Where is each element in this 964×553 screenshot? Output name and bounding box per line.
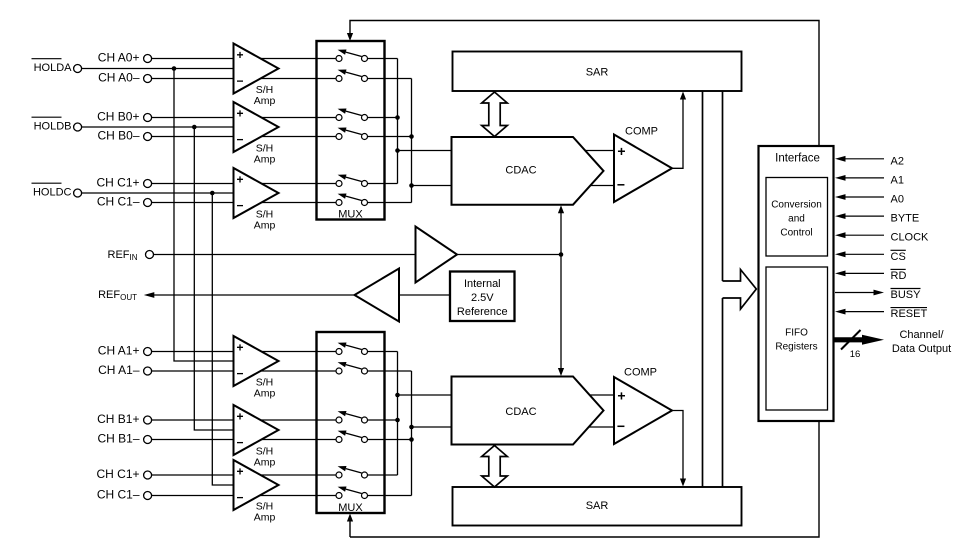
MUX upper box [317,41,385,221]
input terminal CH C1+ [96,176,151,190]
svg-text:Interface: Interface [775,153,820,165]
wire HOLDB to S/H amp [82,126,234,128]
op-amp S/H Amp A1 [234,336,279,400]
switch A1- (lower MUX) [336,362,368,374]
op-amp S/H Amp A0 [234,44,279,108]
svg-text:−: − [236,367,243,381]
signal A0 input [835,194,904,206]
wire Interface bottom to lower MUX control [350,421,819,537]
switch B1+ (lower MUX) [336,411,368,423]
svg-text:Amp: Amp [254,220,276,232]
op-amp S/H Amp B0 [234,102,279,166]
svg-text:Channel/: Channel/ [899,329,944,341]
wire switch A0+ to node V1 [368,58,398,60]
svg-text:HOLDC: HOLDC [33,186,72,198]
wire CDAC to COMP + (upper) [585,150,614,152]
svg-text:CH A0–: CH A0– [98,71,140,85]
junction V4/B1- [409,437,414,442]
svg-text:CH C1–: CH C1– [97,195,140,209]
wire CH B0&#8211; to S/H amp [152,136,234,138]
switch C1+ (upper MUX) [336,175,368,187]
wire switch A1+ to node V3 [368,351,398,353]
input terminal CH A1&#8211; (lower) [98,363,151,377]
wire HOLDA to lower S/H amp [174,69,234,362]
input terminal CH C1+ (lower) [96,467,151,481]
signal RD input [835,269,906,282]
DAC CDAC lower [452,377,604,445]
input terminal CH B0&#8211; [97,129,151,143]
wire CH C1&#8211; to S/H amp (lower) [152,495,234,497]
input terminal CH A1+ (lower) [98,344,152,358]
wire COMP output to SAR (upper) [672,92,686,169]
input terminal HOLDC [32,183,82,198]
op-amp S/H Amp B1 [234,405,279,469]
svg-text:+: + [236,465,243,479]
svg-text:Amp: Amp [254,154,276,166]
input terminal CH B1&#8211; (lower) [97,432,151,446]
wire HOLDC to S/H amp [82,192,234,194]
wire REF to lower CDAC [558,255,564,377]
comparator COMP lower [614,367,672,445]
svg-text:BUSY: BUSY [891,289,922,301]
wire V4 to lower CDAC [412,426,452,428]
wire CH C1+ to S/H amp [152,183,234,185]
svg-text:+: + [236,173,243,187]
svg-text:−: − [236,199,243,213]
switch C1- (upper MUX) [336,194,368,206]
wire switch C1+ to node V3 [368,474,398,476]
svg-text:COMP: COMP [624,367,657,379]
svg-text:CH B0+: CH B0+ [97,110,139,124]
bus SAR data vertical 1 [702,91,704,487]
wire CDAC to COMP - (upper) [590,185,614,187]
wire CH B1+ to S/H amp (lower) [152,419,234,421]
switch B0+ (upper MUX) [336,109,368,121]
svg-text:−: − [617,177,625,193]
op-amp REF_OUT buffer [355,269,400,322]
svg-text:A1: A1 [891,174,904,186]
wire HOLDA to S/H amp [82,68,234,70]
wire S/H amp C1b + output to MUX [261,474,337,476]
wire reference to REF_OUT buffer [399,294,450,296]
node REF [559,252,564,257]
svg-text:HOLDB: HOLDB [34,120,72,132]
svg-text:+: + [236,107,243,121]
junction V3/B1+ [395,418,400,423]
wire S/H amp A0 - output to MUX [261,78,337,80]
signal BUSY output [835,289,921,302]
bus Channel/Data Output [835,335,885,345]
signal A1 input [835,174,904,186]
wire CH B1&#8211; to S/H amp (lower) [152,439,234,441]
wire CDAC to COMP - (lower) [589,426,614,428]
svg-text:CDAC: CDAC [505,406,536,418]
svg-text:CH A0+: CH A0+ [98,51,140,65]
svg-text:+: + [236,341,243,355]
block Interface [759,146,834,421]
input terminal HOLDB [32,117,82,132]
node HOLDB branch [192,125,197,130]
svg-text:CH A1–: CH A1– [98,363,140,377]
wire S/H amp C1 + output to MUX [261,183,336,185]
wire CH B0+ to S/H amp [152,117,234,119]
output REF_OUT [98,289,137,302]
svg-text:MUX: MUX [338,502,363,514]
svg-text:COMP: COMP [625,126,658,138]
svg-text:Amp: Amp [254,457,276,469]
wire lower MUX control from bottom [347,514,353,538]
svg-text:−: − [236,133,243,147]
signal BYTE input [835,213,919,225]
svg-text:CDAC: CDAC [505,164,536,176]
wire REF buffer to CDACs [457,254,561,256]
wire switch C1- to node V4 [368,495,412,497]
input terminal REF_IN [108,249,154,262]
node HOLDC branch [210,191,215,196]
svg-text:Amp: Amp [254,512,276,524]
svg-text:CH C1–: CH C1– [97,488,140,502]
svg-text:CH C1+: CH C1+ [96,467,139,481]
svg-text:HOLDA: HOLDA [34,62,73,74]
svg-text:SAR: SAR [586,67,609,79]
net V2 upper vertical [411,79,413,203]
svg-text:A0: A0 [891,194,904,206]
svg-text:−: − [617,418,625,434]
svg-text:Data Output: Data Output [892,343,951,355]
wire CDAC to COMP + (lower) [590,394,614,396]
wire Interface top to upper MUX control [347,21,819,147]
svg-text:+: + [617,388,625,404]
net V3 lower vertical [397,352,399,476]
signal A2 input [835,155,904,167]
DAC CDAC upper [452,137,604,205]
svg-text:A2: A2 [891,155,904,167]
svg-text:CS: CS [891,251,906,263]
svg-text:−: − [236,436,243,450]
wire switch A0- to node V2 [368,78,412,80]
svg-text:Control: Control [780,228,812,239]
block Conversion and Control [766,178,828,257]
MUX lower box [317,332,385,514]
wire V3 to lower CDAC [398,394,452,396]
wire CH A1+ to S/H amp (lower) [152,351,234,353]
wire HOLDC to lower S/H amp [212,193,233,485]
switch A0+ (upper MUX) [336,50,368,62]
svg-text:Amp: Amp [254,95,276,107]
wire CH C1&#8211; to S/H amp [152,202,234,204]
svg-text:MUX: MUX [338,209,363,221]
comparator COMP upper [614,126,672,203]
svg-text:16: 16 [850,349,861,360]
wire REF to upper CDAC [558,205,564,254]
svg-text:BYTE: BYTE [891,213,920,225]
wire COMP output to SAR (lower) [672,411,686,487]
bus width label 16 [850,349,861,360]
wire switch C1- to node V2 [368,202,412,204]
wire S/H amp A1 - output to MUX [261,370,337,372]
svg-text:Conversion: Conversion [771,200,822,211]
wire CH A0&#8211; to S/H amp [152,78,234,80]
register SAR upper [453,52,742,92]
input terminal CH C1&#8211; [97,195,152,209]
svg-text:−: − [236,74,243,88]
switch C1b+ (lower MUX) [336,466,368,478]
wire CH A0+ to S/H amp [152,58,234,60]
input terminal CH B0+ [97,110,151,124]
wire switch B0+ to node V1 [368,117,398,119]
svg-text:Reference: Reference [457,306,508,318]
svg-text:+: + [236,410,243,424]
input terminal HOLDA [32,59,82,74]
svg-text:SAR: SAR [586,500,609,512]
switch A1+ (lower MUX) [336,343,368,355]
input terminal CH C1&#8211; (lower) [97,488,152,502]
wire switch A1- to node V4 [368,370,412,372]
bus width slash [841,330,861,350]
svg-text:+: + [617,143,625,159]
wire S/H amp C1b - output to MUX [260,495,336,497]
input terminal CH B1+ (lower) [97,412,151,426]
net V4 lower vertical [411,371,413,496]
op-amp REF_IN buffer [416,227,458,283]
wire REF_IN to buffer [154,254,416,256]
svg-text:RD: RD [891,270,907,282]
wire V1 to upper CDAC [398,150,452,152]
svg-text:CLOCK: CLOCK [891,232,930,244]
svg-text:Internal: Internal [464,278,501,290]
wire HOLDB to lower S/H amp [194,127,233,430]
wire S/H amp C1 - output to MUX [261,202,336,204]
svg-text:+: + [236,48,243,62]
wire CH C1+ to S/H amp (lower) [152,474,234,476]
switch B1- (lower MUX) [336,431,368,443]
op-amp S/H Amp C1b [234,460,279,524]
wire switch C1+ to node V1 [368,183,398,185]
wire S/H amp B0 + output to MUX [261,117,336,119]
bus arrow SAR-CDAC upper [482,92,508,137]
op-amp S/H Amp C1 [234,168,279,232]
wire switch B1+ to node V3 [368,419,398,421]
wire switch B1- to node V4 [368,439,412,441]
wire buffer to REF_OUT [144,292,355,298]
register SAR lower [453,487,742,526]
junction V1/B0+ [395,115,400,120]
signal CLOCK input [835,232,929,244]
input terminal CH A0+ [98,51,152,65]
junction V3/CDAC in [395,393,400,398]
switch C1b- (lower MUX) [336,487,368,499]
svg-text:Registers: Registers [775,342,817,353]
svg-text:CH B1–: CH B1– [97,432,139,446]
switch B0- (upper MUX) [336,128,368,140]
signal CS input [835,250,906,262]
svg-text:−: − [236,491,243,505]
wire S/H amp A1 + output to MUX [261,351,336,353]
wire switch B0- to node V2 [368,136,412,138]
svg-text:FIFO: FIFO [785,328,808,339]
wire S/H amp B0 - output to MUX [261,136,336,138]
junction V2/B0- [409,134,414,139]
switch A0- (upper MUX) [336,70,368,82]
wire V2 to upper CDAC [412,185,452,187]
bus arrow into Interface [723,270,757,310]
junction V1/CDAC in [395,148,400,153]
svg-text:and: and [788,214,805,225]
signal RESET input [835,308,927,321]
svg-text:RESET: RESET [891,308,928,320]
svg-text:2.5V: 2.5V [471,292,494,304]
node HOLDA branch [172,66,177,71]
wire CH A1&#8211; to S/H amp (lower) [152,370,234,372]
input terminal CH A0&#8211; [98,71,151,85]
junction V2/CDAC in [409,183,414,188]
net V1 upper vertical [397,59,399,184]
svg-text:Amp: Amp [254,388,276,400]
bus SAR data vertical 2 [722,91,724,487]
block FIFO Registers [766,267,828,410]
wire S/H amp A0 + output to MUX [261,58,337,60]
label Channel/Data Output [892,329,951,355]
wire S/H amp B1 - output to MUX [261,439,336,441]
wire S/H amp B1 + output to MUX [261,419,337,421]
svg-text:CH B1+: CH B1+ [97,412,139,426]
bus arrow SAR-CDAC lower [482,446,508,488]
svg-text:CH C1+: CH C1+ [96,176,139,190]
svg-text:CH B0–: CH B0– [97,129,139,143]
svg-text:CH A1+: CH A1+ [98,344,140,358]
block Internal 2.5V Reference [450,272,515,322]
junction V4/CDAC in [409,425,414,430]
